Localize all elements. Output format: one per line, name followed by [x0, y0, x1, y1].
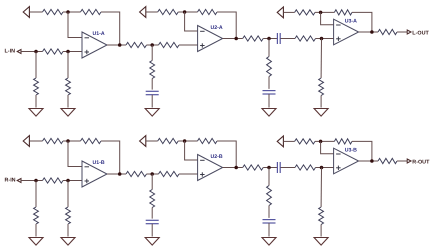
wire (to inverting input): [68, 12, 82, 38]
wire: [281, 38, 296, 40]
capacitor (shunt 4 to ground): [263, 220, 276, 223]
junction (stage 3 output node): [370, 159, 374, 163]
svg-text:U2-A: U2-A: [211, 25, 223, 31]
wire (stage 3 output): [359, 31, 378, 33]
wire: [67, 224, 69, 237]
svg-text:U2-B: U2-B: [211, 154, 223, 160]
wire: [29, 140, 42, 142]
wire: [178, 11, 197, 13]
junction (input node 1): [34, 50, 38, 54]
resistor (stage 2 feedback): [198, 9, 218, 14]
wire: [151, 95, 153, 108]
resistor (stage 2 input b): [159, 42, 180, 47]
junction (stage 3 + node): [320, 37, 324, 41]
wire: [179, 44, 198, 46]
wire (shunt branch 3): [151, 174, 153, 190]
resistor (shunt 4): [267, 186, 272, 206]
junction (stage 1 feedback node): [66, 139, 70, 143]
svg-text:L-IN: L-IN: [5, 49, 16, 55]
ground: [61, 238, 75, 246]
wire (shunt branch 2): [67, 52, 69, 79]
wire: [397, 31, 407, 33]
wire: [21, 180, 43, 182]
resistor (shunt 5 to ground): [319, 207, 324, 225]
junction (stage 3 output node): [370, 30, 374, 34]
wire (shunt branch 5): [320, 39, 322, 79]
junction (stage 1 feedback node): [66, 10, 70, 14]
arrow R-OUT: [407, 159, 411, 163]
resistor (stage 2 input b): [159, 171, 180, 176]
junction (input node 2): [66, 179, 70, 183]
wire: [101, 141, 120, 174]
wire: [217, 12, 236, 39]
wire: [263, 38, 277, 40]
wire: [268, 94, 270, 108]
wire: [35, 224, 37, 237]
ground: [314, 109, 328, 117]
resistor (stage 2 feedback outer): [158, 9, 179, 14]
resistor (stage 1 feedback outer): [43, 138, 64, 143]
capacitor (stage 3 series): [277, 33, 280, 44]
resistor (shunt 1 to ground): [34, 78, 39, 95]
wire: [352, 141, 372, 161]
wire: [63, 140, 81, 142]
wire: [147, 173, 159, 175]
left channel (top half): [5, 7, 430, 117]
wire: [263, 167, 277, 169]
resistor (stage 2 feedback): [198, 138, 218, 143]
off-page arrow (stage 3 feedback, L channel): [277, 7, 283, 18]
junction (stage 2 feedback node): [183, 139, 187, 143]
wire: [63, 180, 82, 182]
wire: [268, 223, 270, 237]
wire: [315, 140, 334, 142]
resistor (stage 1 feedback): [81, 9, 102, 14]
wire (to inverting input): [68, 141, 82, 167]
wire: [151, 79, 153, 90]
wire: [35, 95, 37, 108]
wire: [179, 173, 198, 175]
op-amp U2-B: [198, 155, 223, 181]
wire (shunt branch 3): [151, 45, 153, 61]
arrow L-IN: [17, 50, 21, 54]
arrow R-IN: [17, 179, 21, 183]
wire: [29, 11, 42, 13]
op-amp U3-B: [334, 148, 359, 174]
resistor (stage 3 feedback): [334, 139, 352, 144]
ground: [145, 109, 159, 117]
resistor (stage 1 feedback): [81, 138, 102, 143]
svg-text:L-OUT: L-OUT: [412, 30, 429, 36]
wire: [217, 141, 236, 168]
wire: [320, 96, 322, 108]
wire: [63, 11, 81, 13]
resistor (stage 3 input): [243, 165, 264, 170]
resistor (stage 1 input): [43, 49, 64, 54]
capacitor (stage 3 series): [277, 162, 280, 173]
wire (to inverting input): [185, 141, 198, 160]
wire: [101, 12, 120, 45]
junction (input node 1): [34, 179, 38, 183]
resistor (stage 2 input a): [126, 42, 147, 47]
ground: [61, 109, 75, 117]
resistor (stage 3 input): [243, 36, 264, 41]
op-amp U1-B: [82, 161, 107, 187]
wire (stage 2 output): [223, 167, 243, 169]
resistor (output series): [378, 29, 397, 34]
right channel (bottom half): [5, 136, 431, 246]
junction (input node 2): [66, 50, 70, 54]
wire: [268, 206, 270, 218]
wire (shunt branch 1): [35, 181, 37, 208]
resistor (shunt 1 to ground): [34, 207, 39, 224]
ground: [29, 109, 43, 117]
resistor (stage 1 feedback outer): [43, 9, 64, 14]
op-amp U3-A: [334, 19, 359, 45]
wire (to inverting input): [185, 12, 198, 31]
wire (shunt branch 4): [268, 168, 270, 186]
wire (to inverting input): [321, 12, 334, 24]
ground: [29, 238, 43, 246]
resistor (shunt 2 to ground): [66, 207, 71, 224]
wire (stage 1 output): [107, 173, 126, 175]
junction (stage 1 output node): [118, 43, 122, 47]
resistor (stage 3 feedback): [334, 10, 352, 15]
wire: [316, 167, 334, 169]
resistor (stage 1 input): [43, 178, 64, 183]
wire: [151, 224, 153, 237]
svg-text:R-IN: R-IN: [5, 178, 16, 184]
wire: [146, 140, 158, 142]
resistor (stage 2 feedback outer): [158, 138, 179, 143]
junction (stage 3 RC node): [267, 166, 271, 170]
wire (stage 1 output): [107, 44, 126, 46]
wire (stage 2 output): [223, 38, 243, 40]
wire: [320, 225, 322, 237]
resistor (shunt 5 to ground): [319, 78, 324, 96]
resistor (stage 3 series): [295, 165, 316, 170]
resistor (stage 2 input a): [126, 171, 147, 176]
resistor (stage 3 feedback outer): [295, 139, 315, 144]
junction (stage 3 RC node): [267, 37, 271, 41]
arrow L-OUT: [407, 30, 411, 34]
wire (to inverting input): [321, 141, 334, 153]
wire (shunt branch 5): [320, 168, 322, 208]
wire: [268, 77, 270, 89]
wire: [147, 44, 159, 46]
junction (stage 2 RC node): [150, 43, 154, 47]
op-amp U1-A: [82, 32, 107, 58]
resistor (output series): [378, 158, 397, 163]
wire: [352, 12, 372, 32]
wire (shunt branch 1): [35, 52, 37, 79]
wire: [315, 11, 334, 13]
junction (stage 2 output node): [234, 166, 238, 170]
wire (shunt branch 2): [67, 181, 69, 208]
resistor (shunt 3): [150, 61, 155, 79]
ground: [145, 238, 159, 246]
wire: [178, 140, 197, 142]
ground: [262, 238, 276, 246]
svg-text:U1-A: U1-A: [93, 31, 105, 37]
wire (shunt branch 4): [268, 39, 270, 57]
svg-text:R-OUT: R-OUT: [412, 159, 430, 165]
wire: [63, 51, 82, 53]
junction (stage 2 feedback node): [183, 10, 187, 14]
wire: [146, 11, 158, 13]
junction (stage 3 feedback node): [319, 11, 323, 15]
resistor (shunt 2 to ground): [66, 78, 71, 95]
svg-text:U1-B: U1-B: [93, 160, 105, 166]
off-page arrow (stage 2 feedback, R channel): [140, 136, 146, 147]
off-page arrow (stage 1 feedback, R channel): [23, 136, 29, 147]
wire: [67, 95, 69, 108]
off-page arrow (stage 2 feedback, L channel): [140, 7, 146, 18]
junction (stage 3 feedback node): [319, 140, 323, 144]
op-amp U2-A: [198, 26, 223, 52]
wire (stage 3 output): [359, 160, 378, 162]
wire: [281, 167, 296, 169]
capacitor (shunt 3 to ground): [146, 220, 159, 223]
wire: [283, 11, 294, 13]
wire: [316, 38, 334, 40]
junction (stage 2 RC node): [150, 172, 154, 176]
off-page arrow (stage 1 feedback, L channel): [23, 7, 29, 18]
wire: [151, 208, 153, 219]
resistor (shunt 3): [150, 190, 155, 208]
wire: [283, 140, 294, 142]
resistor (stage 3 feedback outer): [295, 10, 315, 15]
junction (stage 2 output node): [234, 37, 238, 41]
wire: [397, 160, 407, 162]
capacitor (shunt 3 to ground): [146, 91, 159, 94]
junction (stage 3 + node): [320, 166, 324, 170]
svg-text:U3-A: U3-A: [345, 19, 357, 25]
junction (stage 1 output node): [118, 172, 122, 176]
ground: [262, 109, 276, 117]
off-page arrow (stage 3 feedback, R channel): [277, 136, 283, 147]
wire: [21, 51, 43, 53]
svg-text:U3-B: U3-B: [345, 148, 357, 154]
ground: [314, 238, 328, 246]
resistor (shunt 4): [267, 57, 272, 77]
resistor (stage 3 series): [295, 36, 316, 41]
capacitor (shunt 4 to ground): [263, 91, 276, 94]
